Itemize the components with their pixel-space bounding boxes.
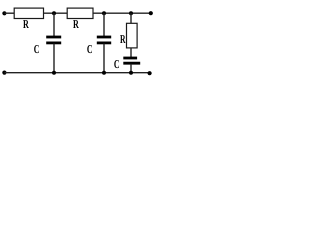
node B junction dot (top of C2 branch)	[102, 11, 106, 15]
wire branch 3 upper (node C down to R3)	[130, 13, 132, 23]
svg-text:C: C	[114, 57, 120, 71]
svg-text:R: R	[120, 32, 126, 46]
resistor R3 (vertical)	[127, 23, 138, 48]
svg-text:R: R	[23, 17, 29, 31]
wire top rail: R1 to node A	[44, 12, 68, 14]
wire branch 1 lower (C1 down to bottom rail)	[53, 44, 55, 73]
svg-text:R: R	[73, 17, 79, 31]
capacitor C2	[97, 37, 111, 43]
capacitor C1	[46, 37, 61, 43]
wire branch 2 lower (C2 down to bottom rail)	[103, 44, 105, 73]
node C junction dot (top of R3 branch)	[129, 11, 133, 15]
terminal node top-right	[149, 11, 153, 15]
resistor R1	[14, 8, 43, 18]
node E junction dot (bottom of C2 branch)	[102, 71, 106, 75]
wire top rail: R2 to output terminal	[93, 12, 152, 14]
wire branch 3 lower (C3 down to bottom rail)	[130, 64, 132, 73]
wire branch 3 middle (R3 down to C3)	[130, 48, 132, 58]
node A junction dot (top of C1 branch)	[52, 11, 56, 15]
node F junction dot (bottom of C3 branch)	[129, 71, 133, 75]
wire branch 2 upper (node B down to C2)	[103, 13, 105, 36]
capacitor C3	[123, 58, 140, 63]
terminal node bottom-left	[2, 71, 6, 75]
terminal node top-left	[2, 11, 6, 15]
wire branch 1 upper (node A down to C1)	[53, 13, 55, 36]
svg-text:C: C	[87, 42, 93, 56]
node D junction dot (bottom of C1 branch)	[52, 71, 56, 75]
wire bottom rail (ground return)	[4, 72, 150, 74]
resistor R2	[67, 8, 93, 18]
svg-text:C: C	[34, 42, 40, 56]
wire top rail: input to R1	[4, 12, 14, 14]
terminal node bottom-right	[148, 71, 152, 75]
